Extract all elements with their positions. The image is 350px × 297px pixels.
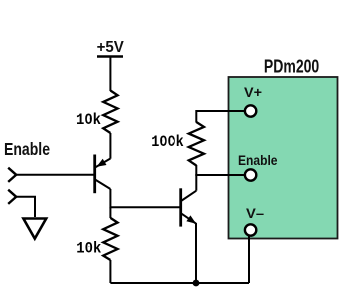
ground [23,219,46,239]
svg-text:100k: 100k [151,133,183,151]
transistor Q2 NPN base bar [179,188,182,226]
transistor Q1 base bar [93,155,96,194]
svg-text:V–: V– [246,205,264,221]
transistor Q2 emitter arrow [186,215,196,223]
wire Q2 emitter down [195,223,197,283]
power +5V symbol [97,55,123,58]
wire chevron2 to ground [16,197,35,217]
bottom rail wire [110,282,249,284]
wire R1 to Q1 emitter [109,133,111,159]
wire +5V to R1 [109,57,111,91]
pin V- [245,224,256,235]
wire Enable to Q1 base [16,174,94,176]
PDm200 module body U1 [229,77,338,239]
wire bottom rail to V- pin [248,234,250,283]
resistor R2 10k [103,218,117,260]
wire Q2 collector up [195,174,197,191]
wire Q1 collector to Q2 base [110,206,179,208]
input connector chevron Enable [8,168,16,182]
wire to R2 [109,207,111,218]
transistor Q1 collector diagonal [95,180,110,190]
input connector chevron 2 [8,190,16,204]
wire R3 top to V+ pin [196,111,246,123]
svg-text:PDm200: PDm200 [264,56,319,77]
transistor Q1 PNP emitter diagonal [95,159,110,168]
transistor Q2 collector diagonal [181,191,196,201]
svg-text:Enable: Enable [238,153,278,168]
resistor R3 100k [189,122,204,166]
svg-text:V+: V+ [244,84,262,100]
wire R2 to bottom rail [109,260,111,283]
pin Enable [245,169,256,180]
wire Q1 collector down [109,189,111,208]
resistor R1 10k [103,91,117,134]
zero counter masks [87,118,89,121]
transistor Q2 emitter diagonal [181,213,196,223]
pin V+ [245,105,256,116]
junction node [193,280,200,287]
svg-text:+5V: +5V [97,39,125,56]
transistor Q1 emitter arrow [97,159,107,167]
svg-text:Enable: Enable [4,139,50,159]
wire R3 bottom to Enable pin [196,165,246,175]
